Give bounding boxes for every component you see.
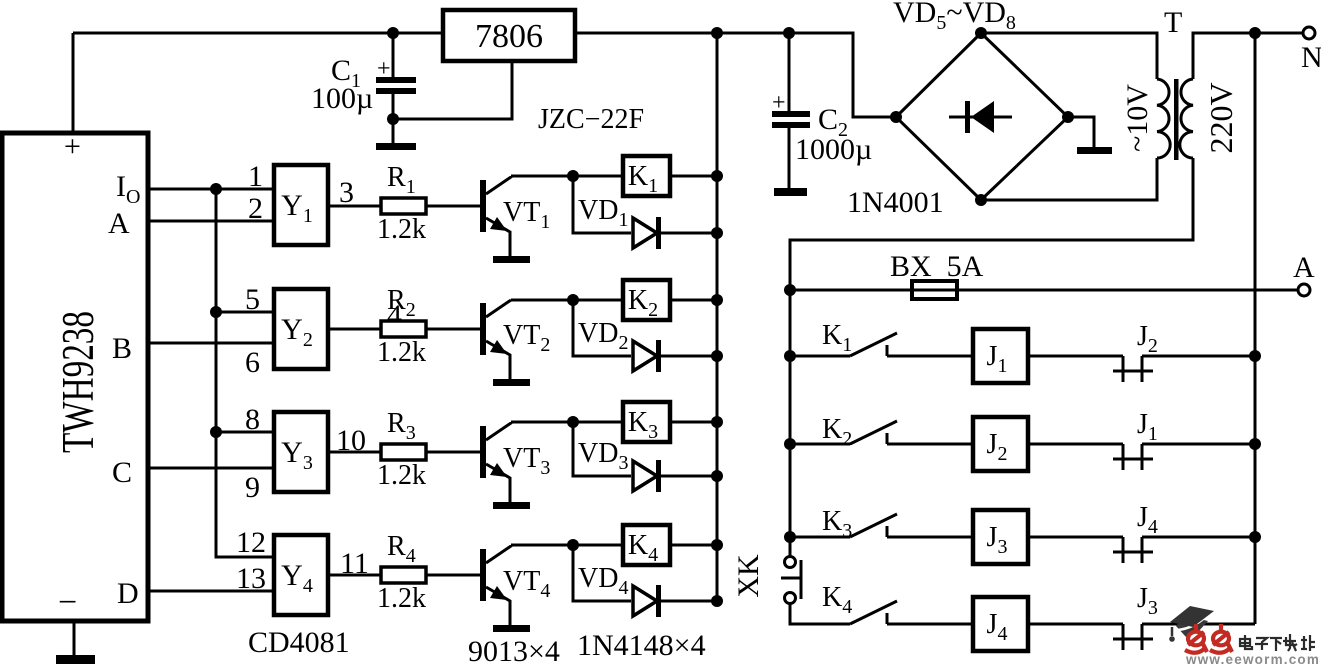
- wire +6V rail left: [73, 32, 443, 35]
- svg-text:1.2k: 1.2k: [377, 460, 426, 491]
- wire row1 to switch: [790, 355, 850, 358]
- svg-text:B: B: [112, 332, 132, 365]
- svg-text:K3: K3: [822, 506, 852, 542]
- svg-text:5: 5: [245, 283, 260, 316]
- svg-text:1N4148×4: 1N4148×4: [577, 629, 706, 662]
- ground bar VT2 emitter: [493, 379, 530, 386]
- watermark bug char: [1210, 624, 1232, 653]
- svg-text:A: A: [1293, 251, 1315, 284]
- wire K3 to bus: [669, 421, 717, 424]
- svg-text:1000µ: 1000µ: [795, 133, 872, 166]
- ground bar under IC: [56, 655, 95, 664]
- wire row2 to switch: [790, 443, 850, 446]
- terminal bar under C2: [774, 188, 807, 196]
- wire IC bottom lead: [73, 621, 76, 657]
- junction bridge bottom: [975, 194, 987, 206]
- junction bus-pin8: [210, 426, 222, 438]
- junction rail-C2: [783, 27, 795, 39]
- svg-text:TWH9238: TWH9238: [53, 311, 103, 453]
- wire switch to J2: [887, 443, 973, 446]
- watermark text zi: [1256, 638, 1267, 650]
- svg-text:8: 8: [245, 403, 260, 436]
- wire switch to J3: [887, 536, 973, 539]
- wire bridge right to ground: [1068, 117, 1094, 148]
- junction bus-K4: [711, 539, 723, 551]
- IC U1 TWH9238: [2, 130, 148, 621]
- junction collector-VD1: [567, 170, 579, 182]
- wire row3 to switch: [790, 536, 850, 539]
- wire VD2 branch: [573, 300, 631, 356]
- wire contact J4 to N bus: [1142, 536, 1255, 539]
- svg-text:220V: 220V: [1203, 82, 1239, 153]
- ground bar VT4 emitter: [493, 625, 530, 632]
- wire collector to K1: [511, 175, 622, 178]
- wire Y4 output: [328, 574, 381, 577]
- relay coil J2: [973, 417, 1028, 471]
- transformer secondary winding 220V: [1180, 79, 1193, 158]
- junction bus K2 contact row: [784, 438, 796, 450]
- terminal A: [1298, 284, 1310, 296]
- wire IC top lead: [72, 33, 75, 133]
- junction collector-VD2: [567, 294, 579, 306]
- svg-text:C: C: [112, 456, 132, 489]
- wire R2 to base: [426, 328, 480, 331]
- svg-text:K4: K4: [822, 582, 852, 618]
- relay coil K3: [623, 402, 670, 443]
- junction bus-I0: [210, 183, 222, 195]
- AND gate Y3: [274, 412, 328, 492]
- svg-text:7806: 7806: [475, 18, 543, 55]
- junction bus-pin5: [210, 306, 222, 318]
- ground bar VT3 emitter: [493, 502, 530, 509]
- wire J2 to contact J1: [1028, 443, 1123, 446]
- svg-text:K1: K1: [822, 320, 852, 356]
- wire Y2 output: [328, 328, 381, 331]
- wire VD1 branch: [573, 176, 631, 233]
- wire gate pin8: [216, 431, 274, 434]
- junction bus-K1: [711, 170, 723, 182]
- junction rail-bus: [711, 27, 723, 39]
- ground bar VT1 emitter: [493, 256, 530, 263]
- svg-text:1.2k: 1.2k: [377, 583, 426, 614]
- junction collector-VD4: [567, 539, 579, 551]
- watermark eeworm logo cap: [1169, 606, 1214, 642]
- interlock contact J2: [1113, 356, 1153, 382]
- junction rail-C1: [387, 27, 399, 39]
- transistor VT1: [480, 176, 511, 256]
- resistor R2: [381, 321, 426, 337]
- svg-text:D: D: [117, 577, 139, 610]
- svg-text:VT1: VT1: [503, 197, 550, 233]
- diode VD4: [633, 585, 717, 617]
- wire R1 to base: [426, 205, 480, 208]
- svg-text:3: 3: [339, 176, 354, 209]
- resistor R1: [381, 198, 426, 214]
- watermark text dian: [1240, 634, 1315, 651]
- interlock contact J3: [1113, 624, 1153, 650]
- relay contact K1: [850, 333, 897, 356]
- junction bus-VD1: [711, 227, 723, 239]
- ground bar bridge: [1077, 147, 1112, 154]
- svg-text:www.eeworm.com: www.eeworm.com: [1185, 652, 1320, 665]
- junction bus K1 contact row: [784, 350, 796, 362]
- wire J1 to contact J2: [1028, 355, 1123, 358]
- resistor R4: [381, 567, 426, 583]
- svg-text:BX 5A: BX 5A: [890, 250, 984, 283]
- regulator 7806: [443, 10, 575, 61]
- wire N bus: [1254, 33, 1257, 624]
- relay contact K2: [850, 421, 897, 444]
- svg-text:J4: J4: [1137, 502, 1158, 538]
- svg-text:9013×4: 9013×4: [468, 635, 560, 665]
- junction N bus row1: [1249, 350, 1261, 362]
- wire 7806 out to C1 node: [393, 61, 512, 119]
- wire J3 to contact J4: [1028, 536, 1123, 539]
- wire collector to K2: [511, 299, 622, 302]
- svg-text:A: A: [108, 207, 130, 240]
- svg-text:R4: R4: [387, 531, 416, 567]
- ground bar under C1: [376, 143, 416, 150]
- relay coil J4: [973, 597, 1028, 651]
- wire contact J1 to N bus: [1142, 443, 1255, 446]
- wire K2 to bus: [669, 299, 717, 302]
- svg-text:+: +: [64, 130, 81, 163]
- svg-text:J2: J2: [1137, 321, 1158, 357]
- svg-text:6: 6: [245, 346, 260, 379]
- wire fuse row right: [957, 289, 1298, 292]
- diode VD1: [633, 217, 717, 249]
- wire K1 to bus: [669, 175, 717, 178]
- wire pin I0: [148, 188, 274, 191]
- AND gate Y4: [274, 535, 328, 615]
- svg-text:VT3: VT3: [503, 443, 550, 479]
- bridge rectifier VD5-VD8: [896, 33, 1068, 200]
- relay contact K3: [850, 514, 897, 537]
- svg-text:−: −: [58, 584, 77, 621]
- terminal N: [1303, 27, 1315, 39]
- svg-text:VT2: VT2: [503, 320, 550, 356]
- junction bus-K2: [711, 294, 723, 306]
- junction bridge top: [975, 27, 987, 39]
- wire 220V bottom return: [790, 158, 1193, 290]
- svg-text:100µ: 100µ: [311, 82, 373, 115]
- capacitor C2: [772, 33, 810, 189]
- svg-text:~10V: ~10V: [1121, 84, 1154, 152]
- wire gate-input bus: [216, 189, 274, 557]
- relay contact K4: [850, 601, 897, 624]
- transformer T primary-side winding ~10V: [1157, 79, 1170, 158]
- wire R4 to base: [426, 574, 480, 577]
- transformer core: [1174, 79, 1179, 160]
- wire fuse row left: [790, 289, 912, 292]
- wire switch to J4: [887, 623, 973, 626]
- wire relay supply bus: [716, 33, 719, 601]
- svg-text:2: 2: [248, 192, 263, 225]
- wire pin A: [148, 220, 274, 223]
- wire pin B: [148, 342, 274, 345]
- svg-text:+: +: [377, 56, 391, 82]
- wire +6V rail right: [575, 33, 896, 117]
- svg-text:1N4001: 1N4001: [847, 186, 944, 219]
- svg-text:VD5~VD8: VD5~VD8: [893, 0, 1016, 34]
- wire VD4 branch: [573, 545, 631, 601]
- watermark text zhan: [1303, 636, 1305, 649]
- interlock contact J4: [1113, 537, 1153, 563]
- svg-text:J3: J3: [1137, 583, 1158, 619]
- svg-text:VD4: VD4: [578, 563, 628, 599]
- svg-text:VD2: VD2: [578, 318, 628, 354]
- relay coil J1: [973, 329, 1028, 383]
- AND gate Y2: [274, 289, 328, 369]
- junction C1-7806out: [387, 113, 399, 125]
- relay coil K4: [623, 525, 670, 566]
- watermark text zai: [1283, 640, 1296, 642]
- wire gate pin5: [216, 311, 274, 314]
- wire Y1 output: [328, 205, 381, 208]
- relay coil K2: [623, 280, 670, 321]
- junction N bus row3: [1249, 531, 1261, 543]
- wire pin D: [148, 590, 274, 593]
- wire R3 to base: [426, 451, 480, 454]
- svg-text:1.2k: 1.2k: [377, 337, 426, 368]
- watermark bug char: [1185, 624, 1207, 653]
- svg-text:+: +: [772, 90, 786, 116]
- wire collector to K3: [511, 421, 622, 424]
- wire contact J3 to N bus: [1142, 623, 1255, 626]
- svg-text:J1: J1: [1137, 409, 1158, 445]
- wire XK to K4 row: [790, 604, 850, 624]
- svg-text:VT4: VT4: [503, 566, 550, 602]
- wire Y3 output: [328, 451, 381, 454]
- relay coil K1: [623, 156, 670, 197]
- junction N-bus: [1249, 27, 1261, 39]
- svg-text:R3: R3: [387, 408, 416, 444]
- junction N bus row2: [1249, 438, 1261, 450]
- capacitor C1: [376, 33, 416, 144]
- junction 220V-switch bus: [784, 284, 796, 296]
- junction bus K3 contact row: [784, 531, 796, 543]
- junction bus-VD2: [711, 350, 723, 362]
- transistor VT3: [480, 422, 511, 502]
- resistor R3: [381, 444, 426, 460]
- AND gate Y1: [274, 165, 328, 245]
- svg-text:R2: R2: [387, 285, 416, 321]
- junction collector-VD3: [567, 416, 579, 428]
- diode VD3: [633, 460, 717, 492]
- wire contact J2 to N bus: [1142, 355, 1255, 358]
- transistor VT4: [480, 545, 511, 625]
- wire bridge bottom to 10V winding: [981, 158, 1157, 200]
- wire 220V top to N: [1193, 33, 1303, 79]
- svg-text:CD4081: CD4081: [248, 626, 350, 659]
- wire bridge top to 10V winding: [981, 33, 1157, 79]
- diode VD2: [633, 340, 717, 372]
- svg-text:R1: R1: [387, 162, 416, 198]
- wire switch bus: [789, 290, 792, 556]
- wire J4 to contact J3: [1028, 623, 1123, 626]
- junction bridge right: [1062, 111, 1074, 123]
- svg-text:13: 13: [236, 562, 266, 595]
- svg-text:1: 1: [248, 160, 263, 193]
- relay coil J3: [973, 510, 1028, 564]
- svg-text:T: T: [1164, 6, 1182, 39]
- wire pin C: [148, 467, 274, 470]
- svg-text:9: 9: [245, 471, 260, 504]
- svg-text:N: N: [1301, 41, 1321, 74]
- transistor VT2: [480, 300, 511, 379]
- svg-text:XK: XK: [732, 554, 765, 598]
- interlock contact J1: [1113, 444, 1153, 470]
- wire switch to J1: [887, 355, 973, 358]
- fuse BX: [912, 281, 957, 299]
- junction bridge left: [890, 111, 902, 123]
- junction bus-VD3: [711, 470, 723, 482]
- wire K4 to bus: [669, 544, 717, 547]
- junction bus-VD4: [711, 595, 723, 607]
- push button XK: [781, 557, 801, 604]
- junction bus-K3: [711, 416, 723, 428]
- svg-text:1.2k: 1.2k: [377, 214, 426, 245]
- watermark text xia: [1270, 637, 1282, 639]
- wire collector to K4: [511, 544, 622, 547]
- svg-text:12: 12: [236, 526, 266, 559]
- svg-text:K2: K2: [822, 414, 852, 450]
- svg-text:JZC−22F: JZC−22F: [538, 104, 644, 135]
- wire VD3 branch: [573, 422, 631, 476]
- svg-text:VD1: VD1: [578, 195, 628, 231]
